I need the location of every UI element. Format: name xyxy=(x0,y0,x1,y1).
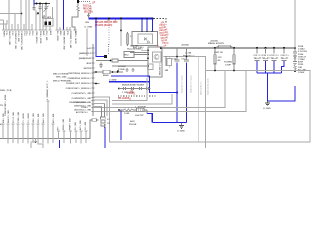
node rail x161 xyxy=(160,47,162,49)
wire vertical x198.5 xyxy=(198,57,200,143)
wire pin 8 xyxy=(39,10,42,30)
route pin97 / section border wire xyxy=(93,71,310,143)
blue bottom horiz xyxy=(152,122,186,124)
svg-text:(MAB)SDA5: (MAB)SDA5 xyxy=(79,57,92,60)
node J1 xyxy=(36,3,38,5)
route bend 4 xyxy=(93,107,102,118)
svg-text:R134: R134 xyxy=(298,45,304,48)
svg-text:CTUP: CTUP xyxy=(225,65,231,67)
diode D6 xyxy=(148,41,150,44)
resistor R41 (vertical hatched) xyxy=(214,55,217,71)
dotted wire to dashed column xyxy=(79,1,90,3)
wire bus B+ (blue) xyxy=(89,18,154,20)
svg-text:+B1345: +B1345 xyxy=(210,40,219,43)
capacitor C11 xyxy=(33,6,36,11)
wire pin 13 (blue net) xyxy=(62,0,65,30)
capacitor C41 xyxy=(293,52,297,56)
wire x166 xyxy=(165,56,167,66)
capacitor C13 xyxy=(45,5,48,11)
capacitor Cb xyxy=(132,87,134,90)
blue jog xyxy=(147,114,152,123)
node (149,52.5) lines into box xyxy=(130,52,149,54)
dashed net vertical xyxy=(108,44,110,54)
cap bank C31 xyxy=(254,48,263,73)
wire pin 6 xyxy=(28,0,31,30)
resistor R72 box hatched xyxy=(137,108,148,111)
route pin111.5 xyxy=(93,71,246,112)
svg-text:1C: 1C xyxy=(130,36,133,38)
svg-text:1C: 1C xyxy=(286,58,289,60)
wire pin 15 xyxy=(74,27,77,30)
node (96,83.5) xyxy=(95,83,97,85)
resistor R51 xyxy=(294,65,296,71)
node (234,70.5) xyxy=(233,70,235,72)
wire x52.5 xyxy=(52,7,54,19)
blue drop to gnd xyxy=(268,73,296,101)
small part above rail xyxy=(148,64,154,70)
blue drop x152.3 xyxy=(151,19,153,32)
svg-text:TUUW4: TUUW4 xyxy=(224,61,233,64)
branch x215 xyxy=(214,48,216,55)
capacitor C53 xyxy=(132,68,135,72)
capacitor C52 xyxy=(126,68,129,72)
svg-text:HP1 HP2: HP1 HP2 xyxy=(42,17,52,19)
svg-text:AU5: AU5 xyxy=(42,31,45,36)
transistor box Q1 xyxy=(148,47,162,77)
wire top right vertical xyxy=(294,0,296,48)
svg-text:D134: D134 xyxy=(298,53,304,56)
capacitor Cd xyxy=(147,87,149,90)
cross wire y56.5 xyxy=(164,56,206,58)
blue bottom stub xyxy=(59,140,61,148)
svg-text:△: △ xyxy=(156,45,159,48)
node (215,70.5) xyxy=(214,70,216,72)
blue vert x186.5 xyxy=(186,63,188,123)
blue drop x96 to SCL xyxy=(96,19,104,57)
node (112.5,72) xyxy=(112,71,114,73)
wire row y88.5 xyxy=(119,88,151,90)
wire y66 xyxy=(112,65,148,67)
wire U3 to Q1 xyxy=(134,54,148,56)
transistor Q1 glyph xyxy=(154,54,159,59)
node (35,142) xyxy=(35,141,37,143)
node rail x215 xyxy=(214,47,216,49)
svg-text:PB-LED45△: PB-LED45△ xyxy=(118,97,131,100)
route pin107.5 xyxy=(93,71,225,108)
wire grey down-left xyxy=(86,29,88,57)
node bus J x96 xyxy=(95,17,97,19)
component on SCL xyxy=(104,55,107,58)
power stub (thick) xyxy=(77,0,79,3)
node bus end dot xyxy=(88,15,90,17)
dotted drop x109 xyxy=(108,20,110,46)
svg-text:U_GND: U_GND xyxy=(85,27,93,29)
relay pins xyxy=(141,31,154,33)
resistor R33 (vertical, hatched) xyxy=(126,32,129,46)
wire pin 4 xyxy=(20,0,23,30)
svg-text:MUTE5: MUTE5 xyxy=(84,68,92,70)
wire x121 lower xyxy=(120,31,122,47)
dotted drop x96 xyxy=(95,20,97,46)
node rail x274 xyxy=(273,47,275,49)
wire pin 9 xyxy=(42,26,45,30)
blue vert x177 xyxy=(176,63,178,123)
svg-text:d_SMD: d_SMD xyxy=(109,79,117,81)
svg-text:L_A047UP: L_A047UP xyxy=(135,106,146,109)
relay inner box xyxy=(138,34,153,44)
bottom stubs xyxy=(2,101,88,148)
node bus J x121 xyxy=(120,17,122,19)
wire pin extra a xyxy=(5,24,8,30)
svg-text:4U: 4U xyxy=(218,59,221,62)
svg-text:C1344: C1344 xyxy=(298,58,305,61)
node bus x142 xyxy=(141,18,143,20)
chain labels xyxy=(298,45,308,74)
svg-text:R1C5 △: R1C5 △ xyxy=(83,5,92,8)
pad 2 xyxy=(49,22,52,26)
drop x177 from rail xyxy=(176,48,178,60)
wire pin 1 xyxy=(2,20,5,30)
IC edge xyxy=(92,44,94,116)
stub hook xyxy=(31,139,36,149)
wire left stub C xyxy=(0,20,7,24)
wire below chain xyxy=(104,124,106,128)
node rail x234 xyxy=(233,47,235,49)
wire pin extra g xyxy=(59,27,62,30)
wire from R21 xyxy=(72,12,78,30)
svg-text:470P: 470P xyxy=(298,61,304,64)
svg-text:PULSE: PULSE xyxy=(129,124,137,126)
dashed vertical net xyxy=(89,3,91,14)
node rail x265.5 xyxy=(264,47,266,49)
ground G2 xyxy=(265,101,270,106)
blue rail A y76 xyxy=(111,76,177,93)
blue drop x142 xyxy=(141,19,143,32)
svg-text:U5V: U5V xyxy=(85,22,90,24)
svg-text:1C: 1C xyxy=(276,58,279,60)
wire y110 row xyxy=(119,109,124,111)
svg-text:AUX: AUX xyxy=(130,120,135,123)
svg-text:Optional de parts: Optional de parts xyxy=(207,77,210,95)
svg-text:SMC 1245: SMC 1245 xyxy=(56,75,67,78)
svg-text:2SDL_PCB: 2SDL_PCB xyxy=(0,90,12,92)
chain wire xyxy=(294,48,296,52)
resistor R42 (vertical hatched) xyxy=(233,55,236,71)
svg-text:BU45X BU45Y BU45T: BU45X BU45Y BU45T xyxy=(122,84,145,87)
connector chain bottom xyxy=(101,104,106,126)
relay box K1 xyxy=(132,32,158,46)
svg-text:Hyu 128: Hyu 128 xyxy=(130,46,139,48)
wire pin 12 xyxy=(56,0,59,30)
capacitor C21 xyxy=(175,60,180,62)
svg-text:1C45: 1C45 xyxy=(124,112,130,115)
part right of Q1 xyxy=(167,56,172,68)
svg-text:L_748: L_748 xyxy=(185,52,192,55)
node (119,88.5) xyxy=(118,88,120,90)
diode pair D10 xyxy=(215,45,234,48)
svg-text:U_GND: U_GND xyxy=(177,131,185,133)
wire pin extra c xyxy=(17,24,20,30)
wire pin extra d xyxy=(23,24,26,30)
node (177,56.5) xyxy=(176,56,178,58)
capacitor Cc xyxy=(140,87,142,90)
node via (38,13.2) xyxy=(37,12,39,14)
wire pin 14 xyxy=(69,27,72,30)
wire y72 xyxy=(93,71,103,73)
node Q1 pin d xyxy=(147,65,149,67)
node J2 xyxy=(39,3,41,5)
wire y83.5 xyxy=(93,83,100,85)
node Q1 pin a xyxy=(147,50,149,52)
wire rail xyxy=(161,47,295,49)
node (186.5,56.5) xyxy=(186,56,188,58)
capacitor Ca xyxy=(124,87,126,90)
wire left stub A xyxy=(0,13,22,15)
node (119,110) xyxy=(118,109,120,111)
node bus J x109 xyxy=(108,17,110,19)
svg-text:1/16W: 1/16W xyxy=(298,72,305,74)
pin net labels xyxy=(66,47,92,112)
wire pin 2 xyxy=(8,0,11,30)
bottom rail xyxy=(0,120,92,139)
Q1 inner box xyxy=(153,52,162,62)
svg-text:+B1245: +B1245 xyxy=(118,65,127,68)
wire y60.5 xyxy=(96,60,111,62)
node (110.5,60.5) xyxy=(110,60,112,62)
bottom stub labels (vertical) xyxy=(1,80,87,130)
capacitor C42 xyxy=(293,62,297,66)
node Q1 pin c xyxy=(147,57,149,59)
wire blue stub top xyxy=(33,0,35,6)
wire pin 11 xyxy=(49,26,52,30)
wire pin 10 xyxy=(45,10,48,30)
svg-text:BU45: BU45 xyxy=(103,74,109,77)
drop x186.5 from rail xyxy=(186,48,188,60)
dashed pin row xyxy=(118,95,156,97)
node rail x284 xyxy=(283,47,285,49)
wire x42.5 xyxy=(42,4,44,19)
wire pin extra f xyxy=(66,27,69,30)
diode D12 xyxy=(294,56,297,61)
red cluster right of relay xyxy=(158,20,171,47)
svg-text:MELCO M3054: MELCO M3054 xyxy=(53,73,69,76)
pad 1 xyxy=(45,22,48,26)
border vertical x205.5 xyxy=(205,56,207,148)
svg-text:(MAB)SCL5: (MAB)SCL5 xyxy=(79,52,92,55)
ground G1 stub xyxy=(181,123,183,125)
svg-text:SMCL/"PSMCM41: SMCL/"PSMCM41 xyxy=(53,80,72,83)
wire pin extra e xyxy=(31,24,34,30)
svg-text:BU5: BU5 xyxy=(87,63,92,65)
node (21.5,13.5) xyxy=(21,13,23,15)
resistor R71 zigzag xyxy=(124,109,137,111)
blue drop to bottom edge xyxy=(104,127,106,148)
wire stub y50.4 xyxy=(141,49,148,51)
node (96,72) xyxy=(95,71,97,73)
node Q1 pin b xyxy=(147,53,149,55)
capacitor C51 xyxy=(100,63,103,69)
wire top bus xyxy=(34,3,50,5)
wire pin extra b xyxy=(11,24,14,30)
node J3 xyxy=(45,3,47,5)
resistor R62 box xyxy=(103,70,123,73)
node (117.5,72) xyxy=(117,71,119,73)
cap bank C32 xyxy=(262,48,271,73)
wire pin 7 xyxy=(35,10,38,30)
node rail x257 xyxy=(256,47,258,49)
node bus x147 xyxy=(146,18,148,20)
blue gnd bus under caps xyxy=(257,72,282,74)
svg-text:PB1C45: PB1C45 xyxy=(83,8,92,11)
route to Q1 xyxy=(112,78,147,101)
svg-text:PB1245 PB1245 PB4: PB1245 PB1245 PB4 xyxy=(95,21,118,24)
svg-text:MB2SL 821UP5: MB2SL 821UP5 xyxy=(208,43,225,45)
blue rail B y81.7 xyxy=(109,81,150,83)
resistor R21 xyxy=(77,3,80,12)
node rail x295 xyxy=(294,47,296,49)
driver box U3 xyxy=(124,52,134,58)
route to opt column xyxy=(112,94,172,104)
svg-text:P.1245: P.1245 xyxy=(118,68,125,71)
node (118,71) xyxy=(117,70,119,72)
wire pin 5 xyxy=(25,0,28,30)
svg-text:+B1245: +B1245 xyxy=(181,44,190,47)
node chain bottom xyxy=(294,70,296,72)
trimmer arrow xyxy=(44,6,49,13)
branch x234 xyxy=(233,48,235,55)
route bend 2 xyxy=(93,100,107,116)
node bus x152.3 xyxy=(151,18,153,20)
route bend 3 xyxy=(93,104,105,118)
resistor R61 box xyxy=(112,59,148,62)
svg-text:U_GND: U_GND xyxy=(263,108,271,110)
capacitor C12 xyxy=(39,5,42,11)
node (177,92.5) blue junction xyxy=(176,91,178,93)
jog grey at x147 xyxy=(146,110,148,114)
pin ticks U1 xyxy=(92,48,95,112)
node dot x121 y30.5 xyxy=(120,30,122,32)
svg-text:(B1245) (B1245): (B1245) (B1245) xyxy=(95,24,112,27)
stub above bus xyxy=(88,13,90,18)
component at rail corner xyxy=(92,119,99,122)
svg-text:U56T U5: U56T U5 xyxy=(214,52,224,54)
drop x121 xyxy=(120,20,122,31)
cap bank C33 xyxy=(271,48,280,73)
blue vertical x121 xyxy=(120,111,122,141)
diode D5 xyxy=(144,38,146,41)
wire pin 3 xyxy=(14,14,17,31)
dashed continuation xyxy=(154,19,167,25)
svg-text:L04 7UP: L04 7UP xyxy=(135,114,144,117)
blue drop x147 xyxy=(146,19,148,32)
connector box CN2 xyxy=(43,19,53,27)
ground G1 xyxy=(179,126,184,129)
capacitor C22 xyxy=(184,60,189,62)
svg-text:C1343: C1343 xyxy=(298,48,305,51)
cap bank C34 xyxy=(281,48,290,73)
wire left stub B xyxy=(0,19,4,21)
cross rail y70.5 xyxy=(206,70,296,72)
